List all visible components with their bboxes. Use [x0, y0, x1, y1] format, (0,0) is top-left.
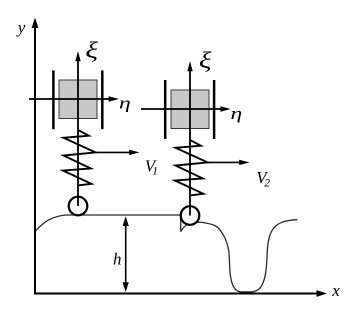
svg-text:1: 1: [152, 166, 158, 178]
eta axis line (horizontal through M1): [29, 98, 112, 100]
svg-text:x: x: [331, 281, 340, 300]
wheel W2 (circle): [181, 206, 200, 225]
mass M1 (gray square): [59, 80, 97, 119]
spring S1 (zigzag): [63, 130, 96, 185]
ground profile (road with pothole): [35, 215, 297, 292]
guide bar right of M2: [213, 80, 216, 139]
svg-text:y: y: [16, 18, 26, 37]
mass M2 (gray square): [171, 90, 209, 129]
svg-text:h: h: [113, 250, 122, 269]
V1 velocity arrow: [96, 151, 134, 153]
V2 velocity arrow: [208, 161, 244, 163]
xi axis line (vertical, through M1 down to wheel center): [77, 61, 79, 206]
h dimension arrow (double-headed): [125, 219, 127, 290]
svg-text:η: η: [230, 105, 242, 123]
guide bar right of M1: [101, 70, 104, 129]
spring S2 (zigzag): [175, 140, 208, 195]
svg-text:ξ: ξ: [199, 47, 212, 73]
svg-text:ξ: ξ: [85, 37, 98, 63]
y-axis: [34, 26, 36, 295]
svg-text:2: 2: [264, 177, 270, 189]
guide bar left of M1: [52, 70, 55, 129]
guide bar left of M2: [164, 80, 167, 139]
wheel W1 (circle): [69, 197, 88, 216]
eta axis line of system 2: [141, 108, 224, 110]
svg-text:η: η: [119, 94, 131, 112]
xi axis line of system 2: [189, 71, 191, 216]
x-axis: [35, 293, 320, 295]
